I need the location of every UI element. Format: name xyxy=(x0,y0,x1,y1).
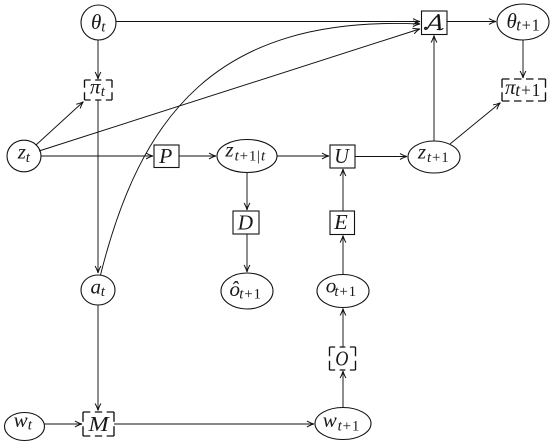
svg-text:t+1: t+1 xyxy=(239,287,262,303)
svg-text:P: P xyxy=(158,144,172,168)
svg-text:t+1: t+1 xyxy=(516,15,541,34)
svg-text:t+1: t+1 xyxy=(427,150,450,166)
svg-text:t: t xyxy=(101,20,106,36)
svg-text:t: t xyxy=(101,284,106,300)
svg-text:w: w xyxy=(14,408,28,432)
svg-text:D: D xyxy=(237,210,253,234)
svg-text:U: U xyxy=(334,144,350,168)
svg-text:z: z xyxy=(224,138,233,162)
svg-text:t+1: t+1 xyxy=(334,284,357,300)
svg-text:π: π xyxy=(90,75,101,99)
svg-text:O: O xyxy=(335,346,348,370)
svg-text:M: M xyxy=(87,412,110,436)
svg-text:a: a xyxy=(91,275,102,299)
svg-text:t+1: t+1 xyxy=(338,419,361,435)
svg-text:w: w xyxy=(323,408,337,432)
svg-text:t+1|t: t+1|t xyxy=(235,149,266,165)
svg-text:t: t xyxy=(28,418,33,434)
svg-text:z: z xyxy=(417,139,426,163)
svg-text:z: z xyxy=(17,140,26,164)
svg-text:t+1: t+1 xyxy=(515,80,541,100)
svg-text:E: E xyxy=(333,210,348,234)
svg-text:t: t xyxy=(101,84,106,100)
svg-text:t: t xyxy=(26,150,31,166)
svg-text:θ: θ xyxy=(91,10,101,34)
